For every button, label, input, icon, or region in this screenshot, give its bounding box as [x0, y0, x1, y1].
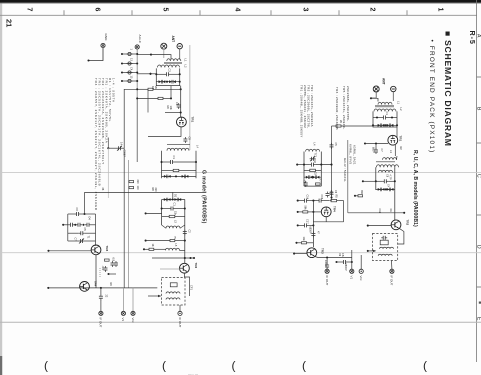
wire bus to TR2 — [184, 229, 186, 263]
svg-text:L2: L2 — [399, 108, 403, 111]
svg-text:C1: C1 — [173, 203, 177, 207]
wire row 3 to coil box — [137, 73, 151, 75]
row tick — [477, 286, 481, 288]
transistor TR4 — [80, 281, 98, 292]
svg-text:■ SCHEMATIC DIAGRAM: ■ SCHEMATIC DIAGRAM — [443, 31, 453, 147]
svg-text:2SK55L, 2SK241 , 2SK302: 2SK55L, 2SK241 , 2SK302 — [303, 85, 307, 128]
svg-text:• FRONT END PACK (PX101): • FRONT END PACK (PX101) — [428, 40, 435, 154]
feedthrough C15 row 4 — [121, 76, 138, 83]
svg-text:IF OUT: IF OUT — [178, 318, 182, 328]
coil L1 — [167, 59, 188, 62]
wire TR1 drain — [396, 127, 398, 138]
varactor row interstage — [376, 188, 395, 192]
trimmer CT1 — [107, 142, 125, 157]
svg-text:CF1: CF1 — [190, 285, 194, 290]
capacitor C3 osc top — [68, 208, 96, 217]
capacitor C8 — [183, 137, 191, 144]
svg-text:C8: C8 — [188, 137, 192, 141]
capacitor C19 — [324, 258, 329, 270]
svg-text:A.G.C: A.G.C — [138, 35, 142, 44]
wire into L1 — [371, 98, 378, 101]
svg-text:C: C — [475, 174, 481, 178]
svg-text:L1: L1 — [397, 101, 401, 104]
svg-text:D: D — [475, 245, 481, 249]
svg-text:..... ...: ..... ... — [188, 371, 198, 375]
wire stub mixer — [145, 212, 162, 214]
svg-text:C6: C6 — [175, 102, 179, 106]
svg-text:TR3: TR3 — [105, 246, 109, 252]
ruler tick — [270, 10, 272, 15]
svg-text:TR4 : 2SK19GR, 2SC460B: TR4 : 2SK19GR, 2SC460B — [335, 87, 339, 130]
svg-text:TR3: TR3 — [321, 248, 325, 254]
wire ANT A down — [371, 91, 376, 98]
transistor TR2 right — [391, 220, 409, 230]
svg-text:C14: C14 — [306, 195, 309, 200]
arrow wire into filter right — [367, 250, 377, 252]
terminal IF OUT right block — [390, 269, 394, 285]
capacitor C18 on bus — [311, 231, 319, 237]
ruler tick — [63, 10, 65, 15]
wire TR1 source down — [395, 145, 402, 156]
svg-text:C11: C11 — [378, 209, 381, 214]
svg-text:220: 220 — [136, 180, 139, 185]
svg-text:L1: L1 — [184, 59, 188, 62]
capacitor C13 below — [303, 180, 308, 187]
capacitor C2 on bus — [183, 230, 191, 236]
osc box left — [67, 214, 69, 241]
svg-text:220: 220 — [154, 188, 157, 193]
input tank box — [156, 68, 179, 85]
row tick — [477, 142, 481, 144]
svg-text:63R9L, 5A21: 63R9L, 5A21 — [353, 145, 357, 165]
feedthrough C13 row 2 — [121, 58, 138, 65]
wire bend at 124 — [124, 89, 137, 148]
terminal IF OUT left — [99, 311, 103, 327]
node ANT stub — [370, 97, 372, 99]
filter cap — [381, 236, 387, 240]
wire tank bottom right — [304, 185, 321, 187]
wire osc feed riser — [83, 188, 104, 216]
wire box 221 — [313, 201, 343, 222]
wire drop to mixer tank — [172, 192, 174, 199]
wire TR3 base — [293, 253, 307, 255]
coil L5 — [166, 244, 185, 251]
wire row 240 with resistor — [145, 236, 186, 242]
core line right block — [375, 105, 394, 107]
wire TR1 source down — [148, 127, 181, 136]
filter inner box right — [380, 240, 388, 245]
resistor R5 top — [329, 195, 343, 202]
capacitor C12 right tank — [296, 159, 332, 167]
svg-text:680P: 680P — [372, 147, 375, 153]
capacitor C10 — [101, 266, 108, 273]
wire left bus 2 — [128, 160, 130, 288]
svg-text:IF OUT: IF OUT — [99, 318, 103, 328]
ruler line — [0, 14, 477, 16]
interstage tank box — [162, 151, 197, 179]
wire tank bottom to bus — [170, 86, 172, 99]
wire filter out — [391, 261, 393, 270]
transistor TR1 — [177, 117, 195, 127]
row tick — [477, 76, 481, 78]
osc box right — [95, 214, 97, 246]
svg-text:D1 : 1SV75TA, 5DV5L: D1 : 1SV75TA, 5DV5L — [108, 78, 112, 122]
transistor TR4 right — [321, 206, 336, 217]
wire TR2 emitter path — [184, 273, 189, 296]
ceramic filter dashed box right — [373, 234, 398, 261]
svg-text:(: ( — [232, 359, 236, 373]
svg-text:TR5 : 2SC1674L, 2SC945L: TR5 : 2SC1674L, 2SC945L — [342, 86, 346, 129]
svg-text:1~4 : S05TA: 1~4 : S05TA — [112, 78, 116, 103]
svg-text:TR1: TR1 — [399, 136, 403, 142]
varactor row right tank — [372, 124, 398, 128]
coil L3 mixer — [162, 220, 185, 228]
osc tank box right — [304, 152, 321, 187]
capacitor C9 pair — [111, 261, 119, 267]
wire TR2 emitter path — [398, 228, 404, 244]
svg-text:2SC2668L, 2SC2785L: 2SC2668L, 2SC2785L — [346, 86, 350, 121]
wire main bus right block — [347, 140, 349, 213]
terminal V1 — [121, 311, 125, 321]
svg-text:C12: C12 — [313, 159, 316, 164]
capacitor C9 interstage — [375, 174, 396, 183]
svg-text:350: 350 — [360, 190, 363, 195]
resistor R 100 — [129, 186, 139, 191]
wire ANT left down — [163, 48, 165, 58]
svg-text:TR1: TR1 — [191, 117, 195, 123]
terminal ANT right — [177, 44, 182, 49]
interstage box right — [376, 167, 395, 190]
feedthrough on bus 331 upper — [330, 143, 338, 149]
svg-text:(: ( — [423, 359, 427, 373]
svg-text:1000P: 1000P — [324, 260, 327, 267]
bottom right edge mark — [479, 302, 481, 304]
wire row 192 — [85, 188, 207, 193]
interstage coil row 1 right — [376, 161, 395, 163]
wire into TR3 — [47, 250, 91, 252]
resistor R11 mixer — [162, 211, 185, 218]
wire V1 bus right — [351, 250, 353, 269]
terminal Vcc right — [359, 269, 363, 281]
dotted bias line — [99, 268, 101, 277]
svg-text:6.8: 6.8 — [112, 258, 115, 262]
svg-text:Gm-R : 5AC21L: Gm-R : 5AC21L — [343, 158, 347, 182]
node at GND wire end — [87, 59, 89, 61]
svg-text:6VR9L, 9YV5: 6VR9L, 9YV5 — [349, 144, 353, 165]
capacitor C16 top — [326, 191, 333, 198]
wire row 1 to coil box — [137, 54, 152, 56]
resistor R3 stub — [354, 190, 363, 197]
terminal Vcc — [131, 311, 135, 323]
svg-text:2K: 2K — [154, 86, 158, 89]
capacitor C5 osc — [68, 228, 96, 236]
wire mixer bus down — [394, 190, 396, 220]
wire TR1 gate bus — [180, 86, 182, 118]
varactor row lower tank — [162, 175, 197, 179]
coil L2 — [158, 65, 188, 68]
faint fold line upper — [0, 171, 481, 173]
svg-text:TR1 : 2SK49L, 2SK49B, 2SK55Y: TR1 : 2SK49L, 2SK49B, 2SK55Y — [300, 85, 304, 138]
svg-text:7: 7 — [26, 8, 33, 12]
wire stub into tank — [149, 73, 156, 75]
svg-text:TR2 : 2SC2669TA, 2SC2669B, 2SC: TR2 : 2SC2669TA, 2SC2669B, 2SC2786LY — [101, 78, 105, 165]
resistor R 220 — [129, 180, 139, 185]
svg-text:L2: L2 — [184, 65, 188, 68]
svg-text:C15: C15 — [320, 195, 323, 200]
svg-text:TR2: TR2 — [194, 263, 198, 269]
wire antenna stub top — [151, 55, 171, 59]
svg-text:R-5: R-5 — [468, 31, 477, 45]
svg-text:C4: C4 — [130, 67, 134, 71]
terminal A.G.C — [135, 35, 142, 50]
svg-text:L4: L4 — [196, 145, 200, 148]
resistor R5 2K — [136, 86, 182, 90]
capacitor C1 right tank — [373, 112, 397, 120]
wire ANT B down — [392, 91, 394, 101]
coil L3 right — [383, 150, 398, 160]
svg-text:1K: 1K — [151, 244, 154, 247]
svg-text:.022: .022 — [101, 266, 104, 271]
wire TR3 out — [315, 253, 352, 259]
terminal IF OUT right — [178, 311, 182, 327]
resistor R9 on rail — [100, 283, 112, 289]
svg-text:V1: V1 — [350, 276, 354, 280]
wire from GND — [89, 48, 104, 61]
svg-text:4.7P: 4.7P — [389, 175, 392, 180]
wire bias bus faint — [107, 148, 109, 198]
wire mixer bus — [312, 201, 314, 247]
faded wire to TR2 — [160, 268, 180, 270]
ruler tick — [406, 10, 408, 15]
svg-text:C1: C1 — [172, 156, 176, 160]
row tick — [477, 214, 481, 216]
svg-text:(: ( — [44, 359, 48, 373]
resistor R4 right tank — [304, 169, 321, 171]
wire stub interstage — [362, 180, 376, 182]
varactor row mixer top — [162, 194, 185, 201]
filter coil row 2 — [166, 298, 180, 300]
tank box right block — [373, 111, 397, 127]
svg-text:TR4: TR4 — [333, 206, 337, 212]
svg-text:(: ( — [162, 359, 166, 373]
resistor R6 56k — [297, 206, 322, 214]
svg-text:6: 6 — [94, 8, 101, 12]
feedthrough C4 row 3 — [121, 67, 138, 74]
svg-text:C16: C16 — [330, 191, 333, 196]
mixer tank box — [162, 200, 185, 230]
arrow wire into filter — [148, 295, 161, 297]
wire row 249 with resistor — [143, 244, 166, 251]
svg-text:R, U, C, A, B models (PA000B1): R, U, C, A, B models (PA000B1) — [412, 150, 418, 227]
svg-text:V1: V1 — [121, 318, 125, 322]
svg-text:TR2 : 2SC2669L, 2SC278L: TR2 : 2SC2669L, 2SC278L — [307, 85, 311, 128]
svg-text:21: 21 — [5, 19, 14, 27]
coil L2 right block — [374, 108, 403, 112]
node pair — [152, 257, 195, 259]
core line — [164, 62, 182, 64]
coil L4 — [167, 145, 200, 151]
transistor TR2 — [180, 263, 199, 274]
svg-text:6800P: 6800P — [309, 227, 312, 234]
ceramic filter dashed box — [162, 278, 186, 306]
terminal ANT left — [161, 43, 167, 49]
resistor R7 below — [316, 179, 322, 186]
wire Vcc bus right — [360, 255, 362, 269]
terminal ANT B — [391, 86, 396, 91]
svg-text:C17: C17 — [306, 219, 309, 224]
wire into TR1 gate — [165, 106, 182, 114]
capacitor C1 in tank — [160, 156, 197, 165]
wire main bottom rail — [47, 287, 157, 289]
wire ANT right down — [179, 48, 181, 59]
interstage coil right — [377, 165, 399, 167]
svg-text:3: 3 — [302, 8, 309, 12]
wire TR1 gate row — [364, 142, 388, 144]
capacitor C1 mixer — [161, 203, 186, 211]
wire left bus down — [123, 148, 125, 288]
svg-text:TR1 : 2SK49TA, 2SK49B, 2SK2A: TR1 : 2SK49TA, 2SK49B, 2SK2A — [105, 78, 109, 143]
svg-text:Vcc: Vcc — [359, 276, 363, 282]
wire R5 drop — [147, 89, 149, 112]
varactor D1 — [156, 80, 180, 84]
svg-text:G model (PA000B5): G model (PA000B5) — [201, 170, 207, 224]
svg-text:TR4: TR4 — [94, 281, 98, 287]
svg-text:IF OUT: IF OUT — [390, 276, 394, 286]
diode D4 — [88, 217, 91, 221]
wire TR3 down — [95, 255, 97, 288]
svg-text:2: 2 — [369, 8, 376, 12]
terminal ANT A — [373, 86, 379, 92]
feedthrough C11 row 1 — [121, 49, 138, 56]
faint fold line middle — [0, 252, 481, 254]
wire V1 drop — [122, 288, 124, 311]
svg-text:ANT: ANT — [382, 78, 386, 85]
right margin vertical rule — [476, 0, 478, 362]
svg-text:1: 1 — [437, 8, 444, 12]
coil L1 right block — [378, 101, 401, 105]
capacitor C6 above TR1 — [175, 102, 181, 109]
filter inner box — [170, 283, 177, 287]
wire top row 212 — [348, 209, 405, 214]
top black bar — [0, 0, 481, 3]
wire bus 331 — [331, 126, 333, 201]
svg-text:(: ( — [302, 359, 306, 373]
transistor TR3 right — [307, 248, 325, 258]
svg-text:IF OUT: IF OUT — [325, 276, 329, 286]
svg-text:C1: C1 — [385, 112, 389, 116]
capacitor C15 — [317, 195, 329, 203]
svg-text:GND: GND — [104, 34, 108, 42]
interstage coil row 2 right — [379, 170, 393, 172]
terminal V1 right — [350, 269, 354, 279]
resistor R1 2K right — [332, 120, 374, 127]
ruler tick — [131, 10, 133, 15]
wire AGC bus — [136, 49, 138, 98]
terminal GND — [101, 34, 108, 48]
wire Vcc drop — [132, 288, 134, 311]
svg-text:4: 4 — [234, 8, 241, 12]
svg-text:100: 100 — [136, 186, 139, 191]
wire TR2 base — [367, 225, 391, 227]
svg-text:5: 5 — [162, 8, 169, 12]
filter coil row 1 right — [380, 247, 394, 249]
svg-text:Vcc: Vcc — [131, 318, 135, 324]
trimmer T1 osc — [68, 236, 96, 244]
capacitor C2 — [155, 69, 181, 77]
ruler tick — [199, 10, 201, 15]
faded vertical bus — [189, 45, 191, 150]
resistor R7 in tank — [162, 169, 197, 171]
svg-text:C2: C2 — [168, 69, 172, 73]
feedthrough C7 — [372, 144, 384, 155]
resistor R10 — [105, 258, 115, 262]
svg-text:ANT: ANT — [171, 36, 175, 43]
varactor row right tank 2 — [304, 172, 321, 179]
svg-text:TC1: TC1 — [314, 153, 317, 158]
wire stub bias — [107, 273, 116, 275]
svg-text:10k: 10k — [169, 106, 173, 111]
left edge scanner strip — [0, 0, 2, 375]
transistor TR3 — [91, 245, 109, 255]
capacitor C17 — [297, 219, 315, 234]
filter coil row 2 right — [378, 254, 392, 256]
wire gate stub bus — [364, 143, 366, 145]
resistor R6 on AGC line — [136, 97, 172, 99]
capacitor C14 — [297, 195, 317, 203]
feedthrough on bus 331 lower — [330, 190, 338, 199]
coil L4 right — [306, 143, 320, 152]
svg-text:6800P: 6800P — [344, 264, 347, 271]
resistor R8 — [295, 237, 313, 244]
capacitor C20 row — [335, 260, 352, 271]
terminal IF OUT 2 — [325, 269, 329, 285]
left strip bottom dark — [0, 356, 2, 375]
svg-text:TR3 : 2SC535TA, 2SC941TA, 2SC1: TR3 : 2SC535TA, 2SC941TA, 2SC1674L, 2SC2… — [98, 78, 102, 186]
svg-text:TR2: TR2 — [406, 220, 410, 226]
trimmer TC1 right — [310, 153, 317, 162]
capacitor C22 below rail — [99, 288, 108, 311]
transistor TR1 right — [388, 135, 403, 145]
osc series caps row — [62, 223, 95, 227]
filter coil row 1 — [166, 292, 180, 294]
wire IF OUT drop — [179, 305, 181, 311]
faint fold line lower — [0, 321, 481, 323]
svg-text:TR3 : 2SC167L, 2SC941A: TR3 : 2SC167L, 2SC941A — [310, 85, 314, 127]
ruler tick — [338, 10, 340, 15]
svg-text:TR4 : 2SK55Y, 2SK211Y, 2SK241Y: TR4 : 2SK55Y, 2SK211Y, 2SK241Y, 2SK302Y,… — [94, 78, 98, 211]
wire bias bus 108 — [107, 138, 109, 149]
